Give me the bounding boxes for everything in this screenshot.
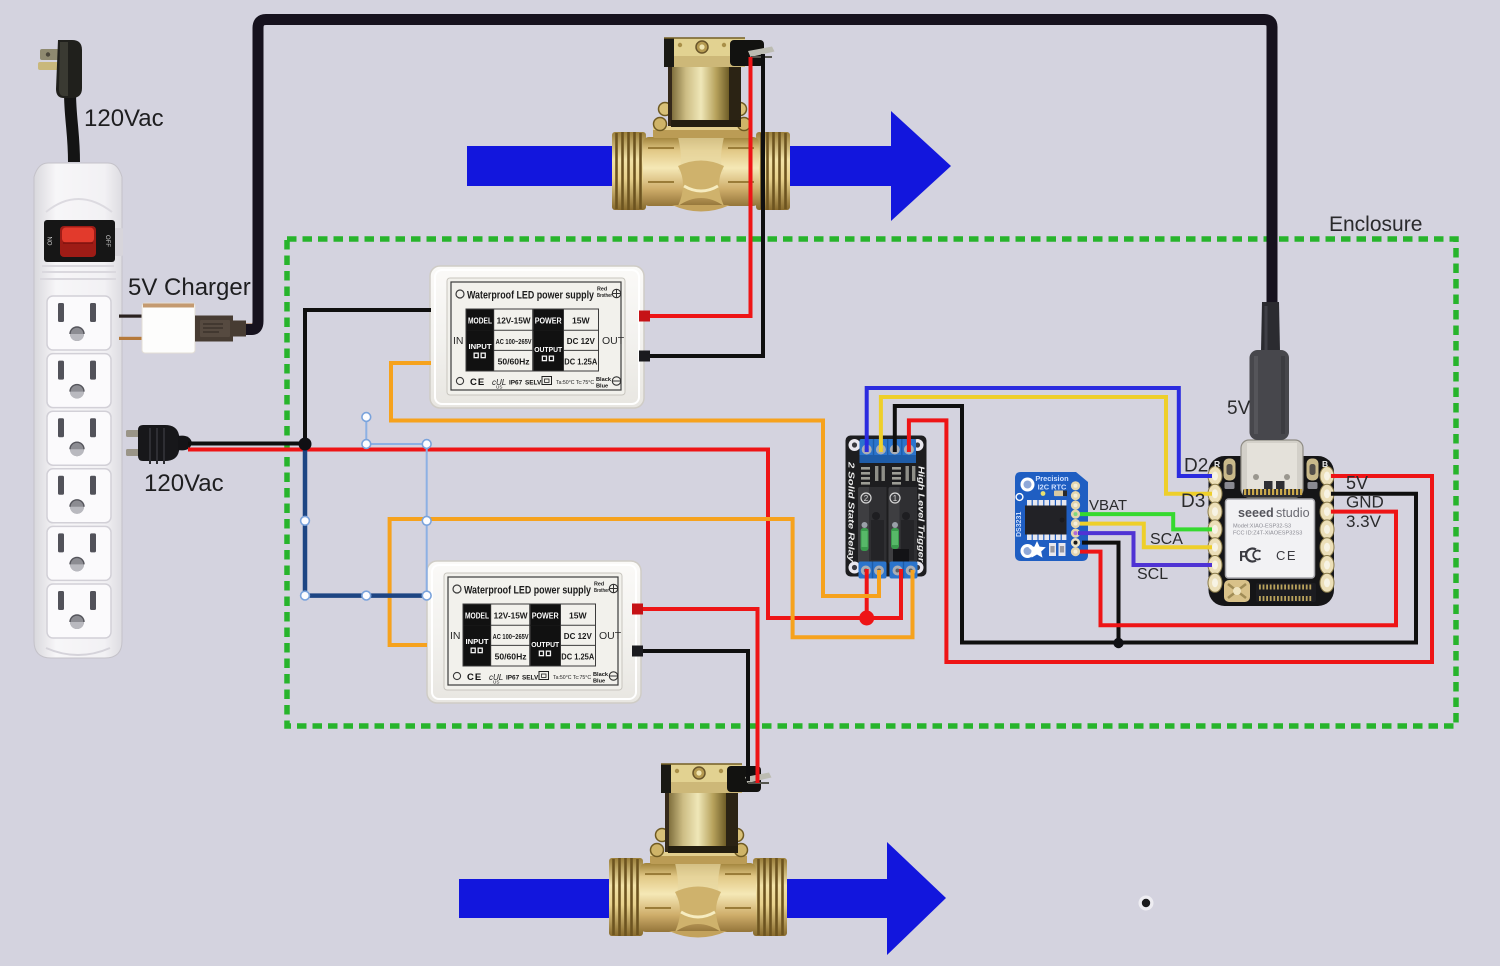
wire: mains red (plug hot to relay commons) [188,450,901,619]
LED power supply PS1 (top) [430,266,644,408]
star logo + caps [1028,541,1046,558]
svg-text:FCC ID:Z4T-XIAOESP32S3: FCC ID:Z4T-XIAOESP32S3 [1233,531,1302,537]
svg-text:SCA: SCA [1150,531,1183,548]
wire: PS1 OUT red to valve V1 [644,57,751,316]
wall plug P2 (120Vac two-prong plug) [126,425,192,464]
wire: red 5V (relay DC+ to XIAO 5V) [909,420,1432,662]
B2B connector [1256,583,1316,602]
USB cable (5V charger to XIAO) [246,20,1272,330]
junction: black node on GND bus [1113,638,1123,648]
svg-text:D2: D2 [1184,456,1208,477]
connector tabs PS2 [632,604,643,615]
outlet O5 [47,526,111,580]
relay 2 body [889,487,918,564]
relay 1 body [858,487,887,564]
flow arrow (top pipe, blue) [467,111,951,221]
svg-text:120Vac: 120Vac [144,470,224,497]
wire: yellow SCA (RTC SDA to XIAO) [1080,524,1212,548]
svg-text:1: 1 [893,494,898,503]
junction: red node [859,611,874,626]
relay SMD parts [861,466,915,485]
svg-text:2: 2 [864,494,869,503]
svg-text:OFF: OFF [104,235,110,247]
svg-text:B: B [1322,459,1328,469]
svg-text:R: R [1214,459,1220,469]
svg-text:seeed: seeed [1238,506,1274,520]
wire: mains neutral dark blue (junction to PS2 IN) [305,444,427,596]
antenna connector [1224,580,1250,602]
svg-text:5V: 5V [1346,473,1368,493]
svg-text:2 Solid State Relay: 2 Solid State Relay [847,461,856,563]
bendpoint nodes (light blue rings) [301,413,432,600]
svg-text:I2C RTC: I2C RTC [1038,483,1067,492]
svg-text:VBAT: VBAT [1089,497,1127,514]
svg-text:DS3231: DS3231 [1016,512,1023,537]
wire: red RTC Vin to XIAO 3.3V [1080,512,1396,626]
wire: red branch to relay output 1 [865,569,869,618]
wire: PS2 OUT red to valve V2 [637,609,758,783]
selected wire (light blue) stub [366,417,426,596]
5V charger block [119,303,195,353]
wire: orange (relay out1 to PS1 IN) [391,363,879,596]
svg-text:studio: studio [1276,506,1310,520]
wire: PS2 OUT black to valve V2 [637,651,748,781]
enclosure boundary (green dashed) [287,239,1456,726]
wire: orange (relay out2 to PS2 IN) [390,519,913,645]
relay input terminal block (top) [860,439,917,463]
castellated pads right [1320,467,1334,593]
wire: black RTC GND drop [1082,543,1119,643]
connector tabs PS1 [639,311,650,322]
svg-text:ON: ON [48,237,54,246]
svg-text:SCL: SCL [1137,566,1168,583]
svg-text:Enclosure: Enclosure [1329,213,1422,236]
castellated pads left [1208,467,1222,593]
wire: mains black (plug to PS1 IN) [188,310,431,444]
svg-text:D3: D3 [1181,491,1205,512]
outlet O2 [47,354,111,408]
wire: yellow D3 (relay IN2 to XIAO) [881,397,1212,494]
outlet O1 [47,296,111,350]
wire: black GND bus (relay to XIAO GND) [895,406,1416,643]
USB-C connector [1241,440,1303,497]
svg-text:High Level Trigger: High Level Trigger [917,466,926,563]
stray dot [1139,896,1154,911]
svg-text:Model:XIAO-ESP32-S3: Model:XIAO-ESP32-S3 [1233,524,1291,530]
outlet O4 [47,469,111,523]
svg-text:120Vac: 120Vac [84,105,164,132]
svg-text:CE: CE [1276,548,1297,563]
outlet O3 [47,411,111,465]
solenoid valve V2 (bottom) [609,764,787,938]
wire: PS1 OUT black to valve V1 [644,54,763,356]
RTC module U2 (DS3231 Precision I2C RTC) [1015,472,1088,561]
flow arrow (bottom pipe, blue) [459,842,946,955]
svg-text:5V: 5V [1227,398,1251,419]
power strip cord (from wall plug) [70,92,74,162]
DS3231 chip [1025,500,1067,540]
wall plug P1 (120Vac right-angle plug) [38,40,82,98]
LED power supply PS2 (bottom) [427,561,641,703]
pin holes [1071,481,1080,556]
svg-text:5V Charger: 5V Charger [128,274,251,301]
solenoid valve V1 (top) [612,38,790,212]
charger USB-A plug [195,316,255,342]
wire: green VBAT (RTC to XIAO) [1080,514,1212,529]
svg-text:3.3V: 3.3V [1346,512,1382,531]
power strip rocker switch [44,220,123,262]
relay module K1 (2ch solid state relay) [846,436,927,577]
relay output terminals (bottom) [859,562,918,579]
svg-text:GND: GND [1346,493,1384,512]
junction: black node at plug split [299,438,312,451]
power strip body [34,163,122,658]
wire: blue D2 (relay IN1 to XIAO) [867,388,1212,476]
MCU U1 (Seeed XIAO ESP32-S3) [1208,440,1334,606]
wire: purple SCL (RTC to XIAO) [1078,533,1212,565]
buttons [1224,459,1236,481]
outlet O6 [47,584,111,638]
RF shield [1226,499,1315,578]
USB-C plug at XIAO [1250,302,1290,440]
